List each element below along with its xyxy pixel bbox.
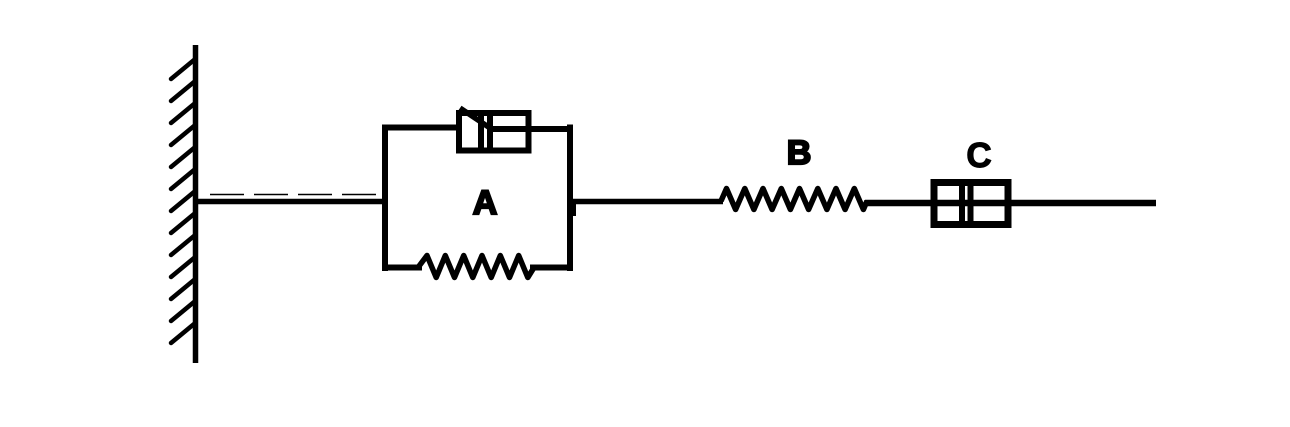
node A box bottom rail left segment [382, 265, 422, 271]
wire A to B [570, 199, 723, 205]
wire wall to A [196, 199, 385, 205]
wire artifact thin line [210, 194, 381, 196]
wall [193, 45, 199, 363]
damper in A [459, 108, 529, 151]
spring in A [418, 256, 534, 278]
node A box bottom rail right segment [530, 265, 573, 271]
damper C [934, 183, 1008, 225]
spring B [721, 189, 867, 210]
junction stub at A right [572, 204, 577, 216]
wire B to end through C [865, 200, 1156, 207]
svg-text:C: C [966, 136, 991, 175]
node A box right edge [567, 125, 573, 272]
node A box left edge [382, 125, 388, 272]
svg-text:B: B [787, 134, 812, 172]
svg-text:A: A [473, 184, 498, 222]
node A box top rail left segment [382, 125, 460, 131]
node A box top rail right segment [489, 126, 573, 132]
wall hatching [171, 60, 194, 343]
